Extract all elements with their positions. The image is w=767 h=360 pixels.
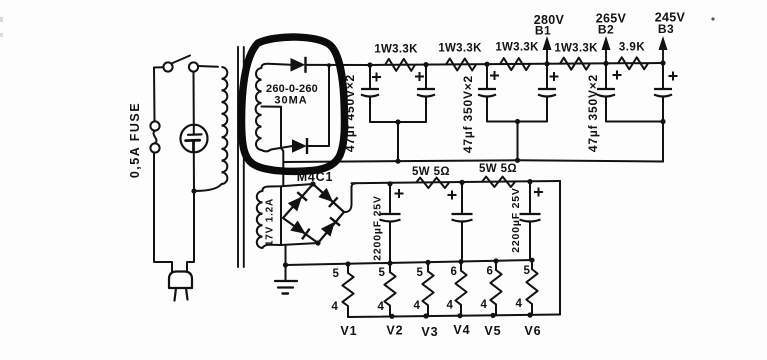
label R2 1W3.3K (438, 43, 482, 55)
capacitor C6 2200uF 25V (520, 182, 541, 260)
plus mark C6 (534, 188, 543, 197)
wire: pin-4 bottom rail (348, 315, 560, 318)
junction C4 top (387, 181, 392, 186)
scan marks left edge (0, 17, 3, 37)
label R7 5W 5ohm (479, 163, 517, 175)
tube label V2 (386, 324, 403, 338)
wire: C3 pair bottom join (606, 121, 663, 123)
plus mark C3b (669, 72, 678, 81)
wire: C1 pair bottom join (370, 121, 426, 123)
label R3 1W3.3K (495, 42, 539, 54)
output tap B2 arrow (602, 36, 611, 63)
junction heater V1 top on pin-5 rail (345, 261, 350, 266)
capacitor C5 2200uF (452, 182, 473, 261)
label 0.5A FUSE (128, 102, 142, 178)
plus mark C3a (613, 71, 622, 80)
svg-text:4: 4 (481, 299, 488, 311)
wire: C2 join to 0V bus (517, 122, 519, 161)
wire: heater rail right riser (559, 181, 561, 315)
pin label 5 for V5 (487, 266, 494, 278)
svg-text:1W3.3K: 1W3.3K (438, 43, 482, 55)
wire: primary bottom to junction (194, 184, 222, 191)
label R6 5W 5ohm (412, 166, 450, 178)
plus mark C1a (372, 73, 381, 82)
wire: HT winding top to diode D1 (261, 64, 291, 68)
junction C2 join (515, 119, 520, 124)
wire: LT winding right spine (280, 187, 282, 246)
wire: fuse to switch (154, 67, 163, 121)
pin label 4 for V4 (447, 300, 454, 312)
tube label V6 (524, 324, 541, 338)
label B3 (658, 22, 674, 36)
junction node cap C2a (484, 62, 489, 67)
heater element V6 (tube heater) (526, 260, 537, 315)
resistor R2 1W 3.3K (446, 59, 476, 71)
junction heater V2 top on pin-5 rail (387, 261, 392, 266)
junction heater V3 top on pin-5 rail (425, 260, 430, 265)
wire: bridge plus riser to heater rail (344, 183, 356, 212)
svg-text:B1: B1 (535, 24, 551, 38)
label B2 (598, 23, 614, 37)
resistor R1 1W 3.3K (385, 59, 415, 71)
pin label 5 for V6 (524, 265, 531, 277)
transformer T1 HT secondary 260-0-260 (256, 68, 262, 150)
transformer T1 primary winding (222, 67, 228, 184)
svg-text:5: 5 (379, 267, 386, 279)
label 245V (655, 11, 686, 25)
scan speck top right (711, 17, 714, 20)
bridge diode bottom-right (322, 217, 340, 235)
svg-text:4: 4 (378, 301, 385, 313)
transformer T1 LT secondary winding 17V 1.2A (257, 191, 263, 248)
label 260-0-260 (266, 83, 318, 95)
junction bridge AC2 (bottom corner) (315, 240, 320, 245)
capacitor C2b 47uF (538, 64, 556, 122)
resistor R5 3.9K (618, 57, 648, 69)
resistor R4 1W 3.3K (560, 58, 590, 70)
label 47uF 350Vx2 (first) (461, 75, 475, 153)
resistor R6 5W 5ohm (416, 178, 449, 188)
svg-text:4: 4 (332, 301, 339, 313)
junction C1 join (395, 119, 400, 124)
pin label 5 for V1 (333, 268, 340, 280)
pin label 4 for V3 (414, 300, 421, 312)
label 47uF 350Vx2 (second) (586, 74, 600, 152)
svg-text:6: 6 (451, 266, 458, 278)
ground symbol (275, 265, 297, 294)
bridge diode top-right (319, 189, 337, 207)
pin label 4 for V6 (516, 298, 523, 310)
label B1 (535, 24, 551, 38)
capacitor C3b 47uF (654, 63, 672, 122)
output tap B3 arrow (659, 36, 668, 63)
wire: D2 output riser to B+ rail (308, 65, 330, 146)
svg-text:5: 5 (333, 268, 340, 280)
svg-text:B2: B2 (598, 23, 614, 37)
tube label V3 (421, 325, 438, 339)
svg-text:5W 5Ω: 5W 5Ω (412, 166, 450, 178)
wire: C3 join down to 0V bus end (662, 122, 664, 162)
svg-text:V2: V2 (386, 324, 403, 338)
wire: LT bottom to bridge AC2 (263, 243, 319, 248)
junction pin-4 rail node 5 (527, 312, 532, 317)
junction node B3 (660, 60, 665, 65)
heater element V1 (tube heater) (342, 264, 353, 317)
label 30MA (274, 95, 307, 107)
junction C6 top (527, 179, 532, 184)
svg-text:30MA: 30MA (274, 95, 307, 107)
plus mark C5 (448, 191, 457, 200)
junction heater V4 top on pin-5 rail (458, 259, 463, 264)
bridge diode bottom-left (291, 221, 309, 239)
wire: 0V bus (HT return) (284, 160, 663, 162)
resistor R3 1W 3.3K (500, 58, 530, 70)
heater element V3 (tube heater) (422, 262, 433, 316)
hand-drawn marker highlight loop (242, 37, 345, 171)
junction pin-4 rail node 4 (490, 313, 495, 318)
svg-text:4: 4 (447, 300, 454, 312)
bridge diode top-left (289, 192, 307, 210)
resistor R7 5W 5ohm (482, 177, 515, 187)
wire: C2 pair bottom join (487, 121, 547, 123)
junction 0V bus / C1 (395, 159, 400, 164)
neon lamp LP1 (181, 125, 208, 153)
svg-text:4: 4 (516, 298, 523, 310)
junction 0V bus / C2 (515, 158, 520, 163)
svg-text:B3: B3 (658, 22, 674, 36)
wire: C1 join to 0V bus (397, 122, 399, 161)
capacitor C1b 47uF (417, 65, 435, 122)
wire: junction to plug (right mains lead) (187, 191, 194, 272)
wire: HT winding bottom to diode D2 (262, 146, 293, 151)
wire: HT center tap down (262, 107, 284, 187)
output tap B1 arrow (543, 36, 552, 64)
svg-text:5: 5 (524, 265, 531, 277)
junction node cap C1a (367, 62, 372, 67)
wire: bridge minus to ground/heater rail (285, 245, 287, 265)
svg-text:1W3.3K: 1W3.3K (554, 43, 598, 55)
junction heater V6 top on pin-5 rail (529, 258, 534, 263)
label 17V 1.2A (265, 198, 276, 246)
svg-text:1W3.3K: 1W3.3K (374, 44, 418, 56)
svg-text:260-0-260: 260-0-260 (266, 83, 318, 95)
label 47uF 450Vx2 (343, 74, 357, 152)
wire: B+ top rail (307, 63, 663, 65)
label R5 3.9K (619, 42, 645, 54)
svg-text:V6: V6 (524, 324, 541, 338)
plus mark C2b (550, 72, 559, 81)
svg-text:V3: V3 (421, 325, 438, 339)
junction C3 join (660, 119, 665, 124)
label R4 1W3.3K (554, 43, 598, 55)
svg-text:47µf 350V×2: 47µf 350V×2 (461, 75, 475, 153)
junction pin-4 rail node 2 (423, 313, 428, 318)
capacitor C1a 47uF (361, 65, 379, 122)
junction node cap C1b (423, 62, 428, 67)
svg-text:V4: V4 (453, 323, 470, 337)
plus mark C4 (395, 189, 404, 198)
tube label V5 (484, 324, 501, 338)
svg-text:1W3.3K: 1W3.3K (495, 42, 539, 54)
fuse F1 0.5A (150, 121, 159, 152)
pin label 5 for V2 (379, 267, 386, 279)
pin label 5 for V3 (417, 267, 424, 279)
diode D2 (HT bottom) (293, 138, 308, 154)
capacitor C4 2200uF 25V (380, 184, 401, 263)
wire: LT top to bridge AC1 (262, 184, 313, 191)
junction ground node (283, 262, 288, 267)
wire: lamp to primary-bottom junction (193, 152, 195, 191)
svg-text:0,5A FUSE: 0,5A FUSE (128, 102, 142, 178)
pin label 5 for V4 (451, 266, 458, 278)
junction pin-4 rail node 1 (389, 314, 394, 319)
capacitor C2a 47uF (478, 64, 496, 121)
capacitor C3a 47uF (597, 63, 615, 121)
junction bridge AC1 (top corner) (310, 181, 315, 186)
switch S1 (on/off) (163, 56, 198, 72)
label 280V (534, 13, 565, 27)
wire: switch to transformer primary (198, 65, 218, 68)
svg-text:4: 4 (414, 300, 421, 312)
heater element V2 (tube heater) (384, 263, 395, 316)
label 2200uF 25V (first) (372, 195, 384, 260)
wire: switch to lamp (193, 72, 195, 126)
plus mark C1b (415, 72, 424, 81)
bridge rectifier M4C1 diamond (283, 184, 344, 243)
svg-text:3.9K: 3.9K (619, 42, 645, 54)
junction node B1 (544, 61, 549, 66)
junction pin-4 rail node 3 (457, 313, 462, 318)
diode D1 (HT top) (291, 57, 306, 73)
svg-text:47µf 350V×2: 47µf 350V×2 (586, 74, 600, 152)
label R1 1W3.3K (374, 44, 418, 56)
pin label 4 for V5 (481, 299, 488, 311)
plus mark C2a (490, 71, 499, 80)
junction node B2 (603, 61, 608, 66)
junction C5 top (459, 180, 464, 185)
label 2200uF 25V (second) (510, 187, 522, 252)
tube label V4 (453, 323, 470, 337)
pin label 4 for V2 (378, 301, 385, 313)
junction: rectifier output on rail (327, 63, 331, 67)
label M4C1 (297, 170, 334, 184)
junction: lamp/primary/return node (191, 188, 196, 193)
svg-text:17V 1.2A: 17V 1.2A (265, 198, 276, 246)
svg-text:5: 5 (417, 267, 424, 279)
tube label V1 (340, 324, 357, 338)
plug P1 (mains plug) (169, 272, 192, 301)
svg-text:V5: V5 (484, 324, 501, 338)
heater element V5 (tube heater) (490, 261, 501, 315)
wire: heater + rail (352, 181, 561, 183)
junction heater V5 top on pin-5 rail (493, 258, 498, 263)
svg-text:V1: V1 (340, 324, 357, 338)
svg-text:2200µF 25V: 2200µF 25V (510, 187, 522, 252)
svg-text:6: 6 (487, 266, 494, 278)
wire: pin-5 rail (heater common) (286, 260, 534, 265)
label 265V (596, 12, 627, 26)
heater element V4 (tube heater) (455, 262, 466, 316)
pin label 4 for V1 (332, 301, 339, 313)
svg-text:2200µF 25V: 2200µF 25V (372, 195, 384, 260)
wire: plug to fuse (left mains lead) (154, 153, 172, 273)
svg-text:5W 5Ω: 5W 5Ω (479, 163, 517, 175)
transformer T1 core (238, 47, 244, 267)
